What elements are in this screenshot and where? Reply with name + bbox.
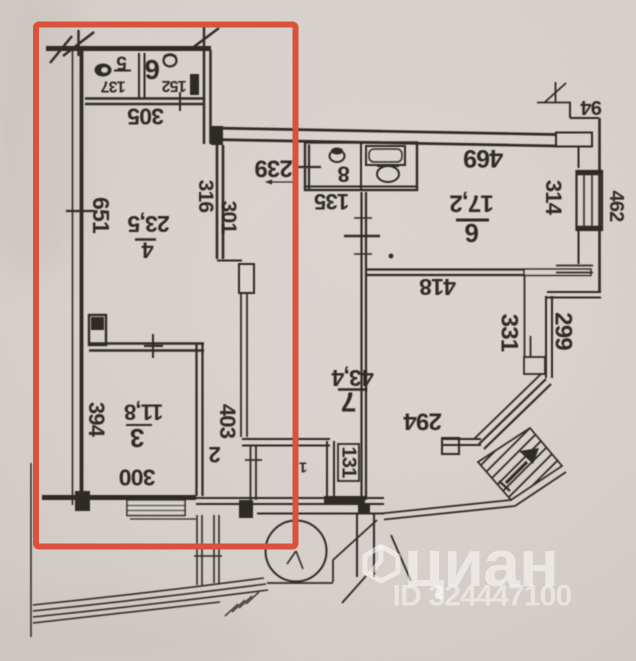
svg-text:300: 300: [120, 465, 156, 491]
duct box 131: [338, 444, 359, 481]
door handle dot: [389, 254, 394, 259]
svg-text:331: 331: [496, 314, 523, 352]
wall: bottom exterior under room 3: [42, 495, 196, 500]
svg-text:394: 394: [84, 402, 109, 438]
svg-text:3: 3: [130, 423, 144, 453]
entry door leafs/porch diagonals: [342, 535, 411, 603]
svg-text:131: 131: [338, 447, 360, 479]
wall jog to doorway box: [217, 260, 242, 262]
svg-text:17,2: 17,2: [450, 190, 494, 217]
svg-text:ID 324447100: ID 324447100: [393, 580, 572, 613]
wall: small pair at x=253: [251, 446, 257, 500]
svg-text:8: 8: [338, 162, 350, 187]
svg-text:23,5: 23,5: [127, 211, 170, 237]
wall: hallway 2 left wall (double): [241, 293, 247, 437]
svg-text:137: 137: [100, 78, 125, 95]
svg-text:299: 299: [550, 312, 577, 350]
hatch ticks near porch: [225, 592, 259, 616]
balcony door shaft below room 3: [194, 515, 222, 585]
balcony arcs: [33, 578, 268, 623]
bath tub in room 8: [366, 146, 405, 165]
watermark cian logo mark: [365, 546, 398, 581]
wall step at 94: [570, 103, 599, 118]
wall: right inner above window: [578, 146, 580, 168]
wall: bottom of rooms 5/6 (double): [85, 99, 204, 105]
ticks on corridor wall: [344, 235, 380, 238]
stair outline diamond: [478, 428, 562, 500]
red highlight rectangle: [36, 25, 296, 547]
door jamb blob right of room 6: [190, 74, 199, 95]
svg-text:5: 5: [116, 52, 127, 73]
wall: exterior right lower pair: [546, 296, 552, 378]
doorway box on room 4 right wall: [239, 264, 254, 293]
wall: left exterior inner line: [80, 48, 84, 507]
thick black wall segment left of entry door: [324, 496, 365, 505]
wall: long corridor wall x=364 (double): [362, 192, 367, 500]
wall: right of rooms 5/6 going down (double): [204, 50, 211, 144]
toilet bowl room 6: [164, 55, 177, 67]
wall: right inner below window: [578, 230, 580, 264]
dimension tick on room 3 top wall: [144, 334, 163, 358]
svg-text:305: 305: [127, 104, 164, 130]
window in bottom wall of room 3: [127, 500, 185, 516]
svg-text:418: 418: [419, 274, 456, 300]
box at corridor right: [524, 357, 545, 374]
svg-text:314: 314: [541, 180, 566, 216]
dark corner join at top of room 4 right wall: [211, 126, 223, 145]
wall: divider between rooms 5 and 6: [139, 53, 145, 99]
window on right wall: [577, 171, 603, 230]
stair treads (clipped 45deg lines): [436, 428, 590, 510]
wall: room 6 bottom (double): [366, 270, 524, 276]
wall end cap black: left wall bottom: [75, 491, 90, 511]
svg-text:7: 7: [341, 387, 356, 418]
svg-text:294: 294: [403, 408, 442, 435]
wall: room 4 right wall upper (double): [217, 145, 223, 259]
dimension tick on left wall y=211: [66, 210, 95, 212]
svg-text:1: 1: [299, 459, 307, 476]
box on that wall: [442, 438, 459, 454]
wall: right exterior outer: [598, 118, 601, 293]
wall: room 3 top (double): [89, 344, 204, 351]
wall: bottom exterior right of room 3 (double): [196, 498, 384, 504]
wall: vertical pair left of entry room 1: [327, 441, 334, 503]
svg-text:239: 239: [255, 155, 293, 182]
svg-text:152: 152: [161, 77, 186, 94]
wall: room 3 right (double): [197, 344, 203, 496]
svg-text:316: 316: [194, 180, 217, 213]
svg-text:651: 651: [88, 197, 114, 234]
svg-text:6: 6: [465, 218, 479, 248]
dimension arrow under 239: [266, 181, 298, 183]
tick on rooms 5/6 bottom wall: [179, 92, 181, 111]
vent shaft fixture room 4 bottom-left: [89, 315, 106, 345]
wall: long horizontal main wall (double): [211, 128, 556, 146]
wall below diagonal (double): [443, 439, 481, 445]
wall: top exterior of rooms 5/6: [46, 46, 211, 51]
landing outer boundary (double): [381, 500, 515, 520]
washbasin room 5: [95, 64, 112, 77]
svg-text:6: 6: [145, 54, 160, 85]
balcony left rail: [30, 463, 32, 637]
diagonal exterior wall band: [474, 374, 541, 439]
door lintel right of room 6 bottom: [524, 269, 591, 276]
svg-text:2: 2: [209, 442, 221, 467]
toilet in room 8: [330, 150, 345, 162]
tick at x=253 wall: [245, 459, 262, 461]
svg-text:94: 94: [580, 96, 602, 118]
dimension tick at x=78 on top wall: [63, 30, 94, 56]
dimension tick at x=204 on top wall: [191, 26, 219, 49]
svg-text:135: 135: [314, 189, 349, 214]
door lintel bottom-right of room 6: [556, 266, 593, 273]
bathroom divider: [360, 143, 362, 190]
black wall cap near entry: [239, 500, 253, 518]
svg-text:301: 301: [217, 201, 240, 235]
wall: left exterior outer line: [72, 48, 74, 505]
wall end cap rectangle at right of main wall: [556, 133, 592, 147]
svg-text:11,8: 11,8: [124, 400, 163, 425]
dimension slash tick: top-left outer: [50, 36, 72, 63]
dimension tick 94 top-right: [537, 82, 571, 103]
corridor right inner line: [524, 276, 526, 357]
lower bottom wall line toward entry: [257, 513, 384, 515]
entry door frame: [357, 514, 374, 577]
stair direction arrow: [506, 462, 527, 483]
wall jog y=295 (double): [547, 292, 601, 298]
svg-text:462: 462: [605, 191, 627, 223]
column circle at porch: [266, 521, 327, 582]
svg-text:4: 4: [141, 238, 154, 263]
svg-text:469: 469: [464, 144, 503, 172]
outer sill line below room 3 window: [130, 518, 196, 520]
bathroom 8 outline: [305, 143, 417, 191]
svg-text:403: 403: [215, 404, 240, 439]
wall: hall bottom horizontal (double): [242, 439, 330, 446]
wash basin in room 8: [377, 166, 399, 182]
